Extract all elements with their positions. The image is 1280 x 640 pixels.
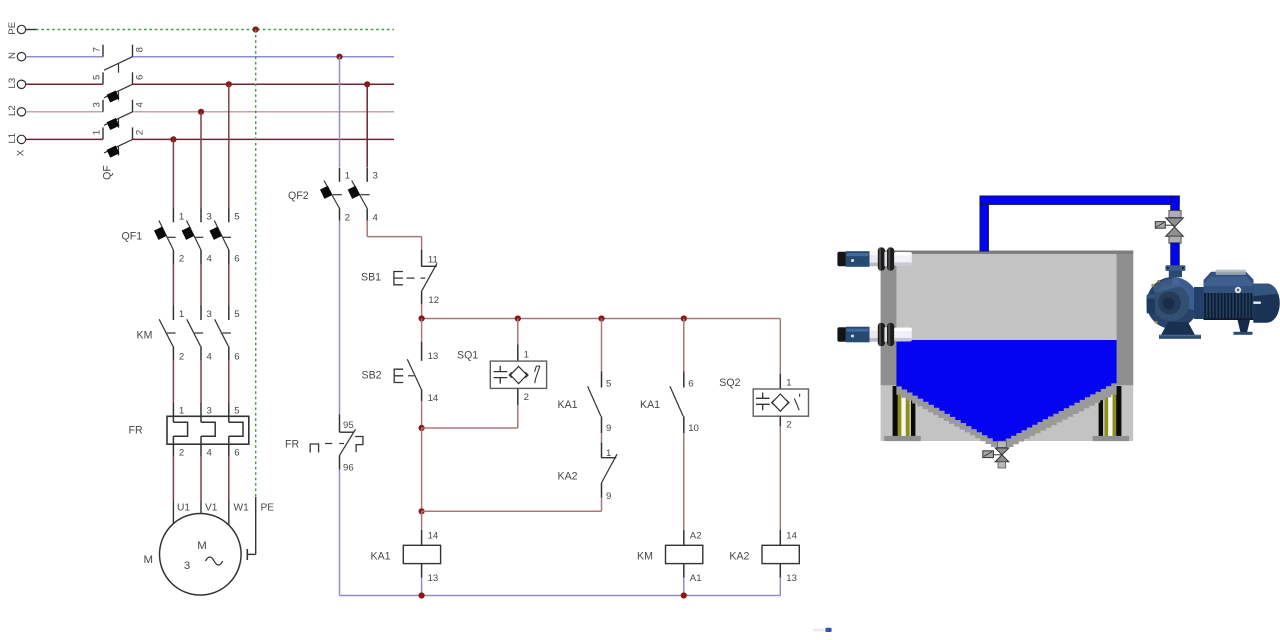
node L3 junction: [226, 81, 232, 87]
tank right wall: [1117, 251, 1134, 386]
svg-text:1: 1: [179, 406, 184, 417]
pipe tank to pump horizontal: [980, 196, 1179, 251]
breaker QF1 pole 5-6: [228, 208, 230, 222]
svg-text:4: 4: [207, 448, 213, 459]
svg-text:1: 1: [606, 448, 611, 459]
svg-text:L1: L1: [7, 133, 18, 144]
relay contact KA2 1-9 NC: [601, 433, 603, 443]
svg-text:KA1: KA1: [558, 399, 578, 411]
level sensor probe: [837, 247, 911, 270]
tank drain outlet stub: [998, 462, 1006, 468]
svg-text:4: 4: [207, 254, 213, 265]
breaker QF2 pole 1-2: [339, 168, 341, 182]
wire L1 rail right: [133, 138, 395, 140]
breaker QF1 pole 3-4: [200, 208, 202, 222]
relay contact KA1 5-9: [601, 319, 603, 372]
svg-text:1: 1: [345, 170, 350, 181]
svg-text:U1: U1: [177, 503, 190, 514]
wire FR to motor: [172, 456, 174, 500]
node L3 junction QF2: [364, 81, 370, 87]
relay coil KM: [683, 530, 685, 545]
svg-text:SQ1: SQ1: [457, 350, 478, 362]
svg-text:A1: A1: [690, 573, 702, 584]
relay coil KA1: [421, 530, 423, 545]
breaker QF2 pole 3-4: [366, 168, 368, 182]
wire SB2 down: [421, 401, 423, 428]
level switch SQ2: [779, 319, 781, 375]
svg-text:4: 4: [135, 101, 146, 107]
node bus junction KM branch: [681, 315, 687, 321]
wire PE to motor: [255, 497, 257, 554]
svg-text:5: 5: [234, 212, 239, 223]
tank hopper cone left wall: [896, 383, 1001, 449]
tank drain valve: [995, 448, 1009, 462]
node junction KA2 return: [419, 508, 425, 514]
wire L2 drop: [200, 112, 202, 208]
svg-text:1: 1: [524, 350, 529, 361]
overload relay FR trip actuator: [310, 444, 318, 453]
svg-text:2: 2: [179, 448, 184, 459]
svg-text:M: M: [144, 554, 154, 566]
wire QF1 to KM: [172, 264, 174, 306]
node L2 junction: [198, 109, 204, 115]
wire L3 rail right: [133, 83, 395, 85]
svg-text:1: 1: [786, 378, 791, 389]
svg-text:A2: A2: [690, 531, 702, 542]
wire L2 rail left: [26, 111, 103, 113]
svg-text:3: 3: [373, 170, 378, 181]
node N terminal: [17, 53, 25, 61]
svg-text:3: 3: [184, 560, 190, 572]
svg-text:2: 2: [345, 212, 350, 223]
contactor KM contact 3-4: [200, 306, 202, 321]
svg-text:14: 14: [428, 531, 439, 542]
svg-text:SB1: SB1: [361, 272, 381, 284]
svg-text:6: 6: [234, 352, 239, 363]
overload relay FR heater 5-6: [228, 403, 230, 422]
pump brass plugs: [1151, 284, 1154, 287]
svg-text:QF: QF: [102, 165, 114, 180]
svg-text:96: 96: [343, 463, 354, 474]
svg-text:L3: L3: [7, 78, 18, 89]
wire PE rail: [26, 29, 36, 31]
breaker QF pole 1-2: [102, 127, 104, 139]
wire L1 drop: [172, 139, 174, 208]
pump volute casing: [1147, 277, 1199, 329]
node bus junction KA1: [598, 315, 604, 321]
pushbutton SB2 NO: [421, 319, 423, 342]
svg-text:9: 9: [606, 491, 611, 502]
node bus junction A: [419, 315, 425, 321]
node bottom bus junction KM: [681, 592, 687, 598]
svg-text:KM: KM: [637, 551, 653, 563]
node bottom bus junction KA1: [419, 592, 425, 598]
svg-text:13: 13: [786, 573, 797, 584]
breaker QF1 pole 1-2: [172, 208, 174, 222]
motor M circle: [160, 514, 242, 596]
node L2 terminal: [17, 108, 25, 116]
svg-text:KA2: KA2: [558, 471, 578, 483]
pump motor bolt: [1235, 287, 1241, 293]
svg-text:14: 14: [786, 531, 797, 542]
svg-text:QF2: QF2: [288, 190, 309, 202]
wire SQ1 return: [422, 427, 518, 429]
wire SB1 to bus: [421, 304, 423, 318]
wire neutral to bottom bus: [339, 470, 341, 596]
overload relay FR NC contact 95-96: [339, 414, 341, 432]
motor PE chassis tick: [246, 549, 248, 560]
ui artifact bottom: [814, 629, 825, 632]
svg-text:6: 6: [234, 254, 239, 265]
svg-text:2: 2: [179, 352, 184, 363]
svg-text:V1: V1: [205, 503, 218, 514]
pipe valve to pump: [1171, 243, 1179, 266]
svg-text:1: 1: [92, 130, 103, 135]
svg-text:14: 14: [428, 393, 439, 404]
node PE terminal: [17, 25, 25, 33]
svg-text:FR: FR: [129, 425, 143, 437]
overload relay FR heater 3-4: [200, 403, 202, 422]
svg-text:2: 2: [179, 254, 184, 265]
pipe coupling above valve: [1169, 211, 1181, 218]
level sensor probe: [837, 323, 911, 346]
relay coil KA2: [779, 530, 781, 545]
svg-text:6: 6: [135, 75, 146, 80]
contactor KM contact 5-6: [228, 306, 230, 321]
tank top rim: [881, 251, 1134, 254]
relay contact KA1 6-10: [683, 319, 685, 372]
wire L3 rail left: [26, 83, 103, 85]
tank liquid: [896, 340, 1116, 441]
overload relay FR heater 1-2: [172, 403, 174, 422]
node junction SB2-SQ1: [419, 425, 425, 431]
svg-text:1: 1: [179, 212, 184, 223]
node L1 junction: [170, 136, 176, 142]
pump motor foot: [1238, 320, 1251, 333]
wire SB branch to KA1 coil: [421, 511, 423, 530]
tank drain stem: [997, 441, 1006, 448]
wire PE drop dashed: [255, 30, 257, 498]
contactor KM contact 1-2: [172, 306, 174, 321]
tank left wall: [881, 251, 897, 386]
svg-text:M: M: [197, 540, 207, 552]
svg-text:3: 3: [207, 309, 212, 320]
breaker QF pole 7-8: [102, 45, 104, 57]
svg-text:SB2: SB2: [362, 370, 382, 382]
overload relay FR box: [167, 416, 249, 444]
svg-text:4: 4: [373, 212, 379, 223]
svg-text:2: 2: [786, 420, 791, 431]
breaker QF pole 5-6: [102, 72, 104, 84]
node N junction QF2: [336, 54, 342, 60]
svg-text:12: 12: [428, 295, 439, 306]
pump motor body: [1204, 272, 1254, 293]
svg-text:10: 10: [688, 423, 699, 434]
svg-text:QF1: QF1: [122, 231, 143, 243]
svg-text:KM: KM: [137, 330, 153, 342]
svg-text:3: 3: [207, 406, 212, 417]
wire KA2 contact down: [601, 498, 603, 512]
wire QF2 neutral down: [339, 221, 341, 415]
wire L1 rail left: [26, 138, 103, 140]
pump shaft housing: [1194, 287, 1205, 319]
tank right leg: [1099, 386, 1103, 436]
svg-text:N: N: [7, 52, 18, 59]
pump suction flange: [1165, 265, 1185, 271]
wire N rail left: [26, 56, 103, 58]
tank leg bases: [884, 436, 921, 441]
pushbutton SB1 NC: [421, 250, 423, 267]
pump inlet valve: [1166, 218, 1184, 236]
node bus junction SQ1: [515, 315, 521, 321]
level switch SQ1: [517, 319, 519, 345]
wire control bottom bus N: [340, 595, 781, 597]
svg-text:W1: W1: [234, 503, 250, 514]
wire control top bus: [422, 318, 781, 320]
svg-text:5: 5: [606, 379, 611, 390]
wire N rail right: [133, 56, 395, 58]
svg-text:SQ2: SQ2: [719, 377, 740, 389]
wire down to KA1 coil branch: [421, 428, 423, 511]
svg-text:11: 11: [428, 255, 438, 266]
wire L2 rail right: [133, 111, 395, 113]
wire KA2 contact return: [422, 510, 602, 512]
node L3 terminal: [17, 80, 25, 88]
svg-text:13: 13: [428, 351, 439, 362]
wire to KM coil: [683, 433, 685, 530]
wire L3 drop to QF2: [366, 84, 368, 167]
svg-text:5: 5: [234, 406, 239, 417]
svg-text:7: 7: [92, 47, 103, 52]
svg-text:3: 3: [92, 102, 103, 107]
tank body silver interior: [881, 251, 1134, 442]
svg-text:2: 2: [524, 392, 529, 403]
wire L3 drop: [228, 84, 230, 208]
node L1 terminal: [17, 135, 25, 143]
tank left leg: [893, 386, 898, 436]
svg-text:KA1: KA1: [640, 399, 660, 411]
tank hopper cone right wall: [1003, 383, 1117, 449]
svg-text:95: 95: [343, 420, 354, 431]
svg-text:5: 5: [234, 309, 239, 320]
pipe down to valve: [1171, 196, 1179, 211]
svg-text:PE: PE: [7, 22, 18, 35]
svg-text:9: 9: [606, 423, 611, 434]
breaker QF pole 3-4: [102, 100, 104, 112]
wire N drop to QF2: [339, 57, 341, 168]
svg-text:KA2: KA2: [729, 551, 749, 563]
svg-text:6: 6: [688, 379, 693, 390]
svg-text:X: X: [16, 149, 27, 156]
wire KM to FR: [172, 360, 174, 403]
pump inlet valve handle: [1155, 222, 1165, 229]
svg-text:2: 2: [135, 130, 146, 135]
pump inlet boss: [1147, 295, 1156, 314]
tank drain valve handle: [983, 451, 994, 458]
svg-text:1: 1: [179, 309, 184, 320]
svg-text:KA1: KA1: [371, 551, 391, 563]
svg-text:5: 5: [92, 75, 103, 80]
svg-text:3: 3: [207, 212, 212, 223]
svg-text:4: 4: [207, 352, 213, 363]
pump bracket foot: [1161, 322, 1195, 335]
pipe coupling below valve: [1169, 236, 1181, 243]
svg-text:L2: L2: [7, 105, 18, 116]
svg-text:8: 8: [135, 47, 146, 52]
wire QF2 phase to SB1: [366, 221, 368, 237]
svg-text:PE: PE: [261, 503, 275, 514]
svg-text:FR: FR: [285, 439, 299, 451]
svg-text:13: 13: [428, 573, 439, 584]
pump end cap: [1253, 284, 1280, 323]
node PE junction: [253, 26, 259, 32]
svg-text:6: 6: [234, 448, 239, 459]
